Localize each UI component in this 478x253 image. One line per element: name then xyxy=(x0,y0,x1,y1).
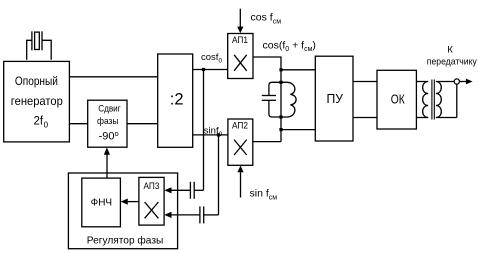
wire: upper capacitor line into AP3 xyxy=(164,187,203,193)
transformer secondary winding xyxy=(436,82,441,118)
block: Сдвиг фазы -90 xyxy=(88,100,127,147)
wire: phase shifter to divider xyxy=(127,123,158,125)
svg-text:генератор: генератор xyxy=(11,94,63,108)
block: amplifier PU xyxy=(315,56,353,141)
svg-text:ОК: ОК xyxy=(391,93,406,107)
label К передатчику xyxy=(427,45,477,68)
wire: AP3 to FNCH with arrow xyxy=(121,199,139,205)
node: tank bottom xyxy=(279,115,282,118)
block: multiplier AP3 xyxy=(139,177,164,225)
wire: sinf0 drop to phase detector xyxy=(218,135,220,215)
wire: output arrow to transmitter xyxy=(459,79,472,85)
wire: generator to phase shifter xyxy=(69,123,87,125)
block: multiplier AP2 xyxy=(228,119,253,165)
block: phase regulator outline xyxy=(68,173,177,249)
crystal resonator symbol xyxy=(32,31,42,50)
crystal holder box xyxy=(27,40,52,60)
inductor of tank circuit xyxy=(281,82,296,117)
wire: AP2 output xyxy=(253,141,281,143)
wire: sin fsm input arrow into AP2 xyxy=(237,166,243,198)
transformer primary winding xyxy=(423,82,429,118)
svg-text:АП2: АП2 xyxy=(232,120,248,130)
svg-text:АП1: АП1 xyxy=(232,35,248,45)
svg-text:Регулятор фазы: Регулятор фазы xyxy=(87,235,164,247)
svg-text:К: К xyxy=(447,45,453,56)
svg-text::2: :2 xyxy=(170,91,184,109)
wire: cosf0 divider to AP1 xyxy=(193,69,228,71)
svg-text:фазы: фазы xyxy=(97,116,119,127)
wire: to PU top input xyxy=(281,69,315,71)
block: LPF FNCH xyxy=(82,178,121,227)
block: output cascade OK xyxy=(377,70,416,129)
block: Опорный генератор 2f0 xyxy=(4,61,70,141)
svg-text:передатчику: передатчику xyxy=(427,57,477,68)
wire: sinf0 divider to AP2 xyxy=(193,134,228,136)
node: tank top xyxy=(279,81,282,84)
capacitor of tank circuit xyxy=(262,82,281,117)
node: cosf0 junction xyxy=(202,68,205,71)
wire: FNCH up to phase shifter with arrow xyxy=(104,148,110,179)
wire: cos fsm input arrow into AP1 xyxy=(237,9,243,34)
svg-text:Сдвиг: Сдвиг xyxy=(98,104,121,115)
wire: OK to transformer bottom xyxy=(416,117,428,119)
wire: cosf0 drop to phase detector xyxy=(203,70,205,191)
node: sinf0 junction xyxy=(217,133,220,136)
transformer core xyxy=(432,80,434,120)
output terminal circle xyxy=(454,79,459,84)
block: divider :2 xyxy=(158,54,193,147)
wire: PU to OK bottom xyxy=(353,117,377,119)
coupling capacitor C1 (upper) xyxy=(190,182,194,199)
node: junction top xyxy=(279,68,282,71)
wire: to PU bottom input xyxy=(281,129,315,131)
block: multiplier AP1 xyxy=(228,34,253,79)
wire: generator to divider (top) xyxy=(69,76,157,78)
wire: OK to transformer top xyxy=(416,81,428,83)
wire: AP1 output xyxy=(253,57,281,142)
wire: PU to OK top xyxy=(353,81,377,83)
svg-text:ФНЧ: ФНЧ xyxy=(91,197,113,209)
svg-text:ПУ: ПУ xyxy=(327,92,344,106)
svg-text:АП3: АП3 xyxy=(144,181,160,191)
wire: secondary loop to output terminal xyxy=(436,82,457,118)
coupling capacitor C2 (lower) xyxy=(200,206,204,223)
node: junction bottom xyxy=(279,128,282,131)
wire: lower capacitor line into AP3 xyxy=(164,212,218,218)
svg-text:Опорный: Опорный xyxy=(15,74,58,88)
